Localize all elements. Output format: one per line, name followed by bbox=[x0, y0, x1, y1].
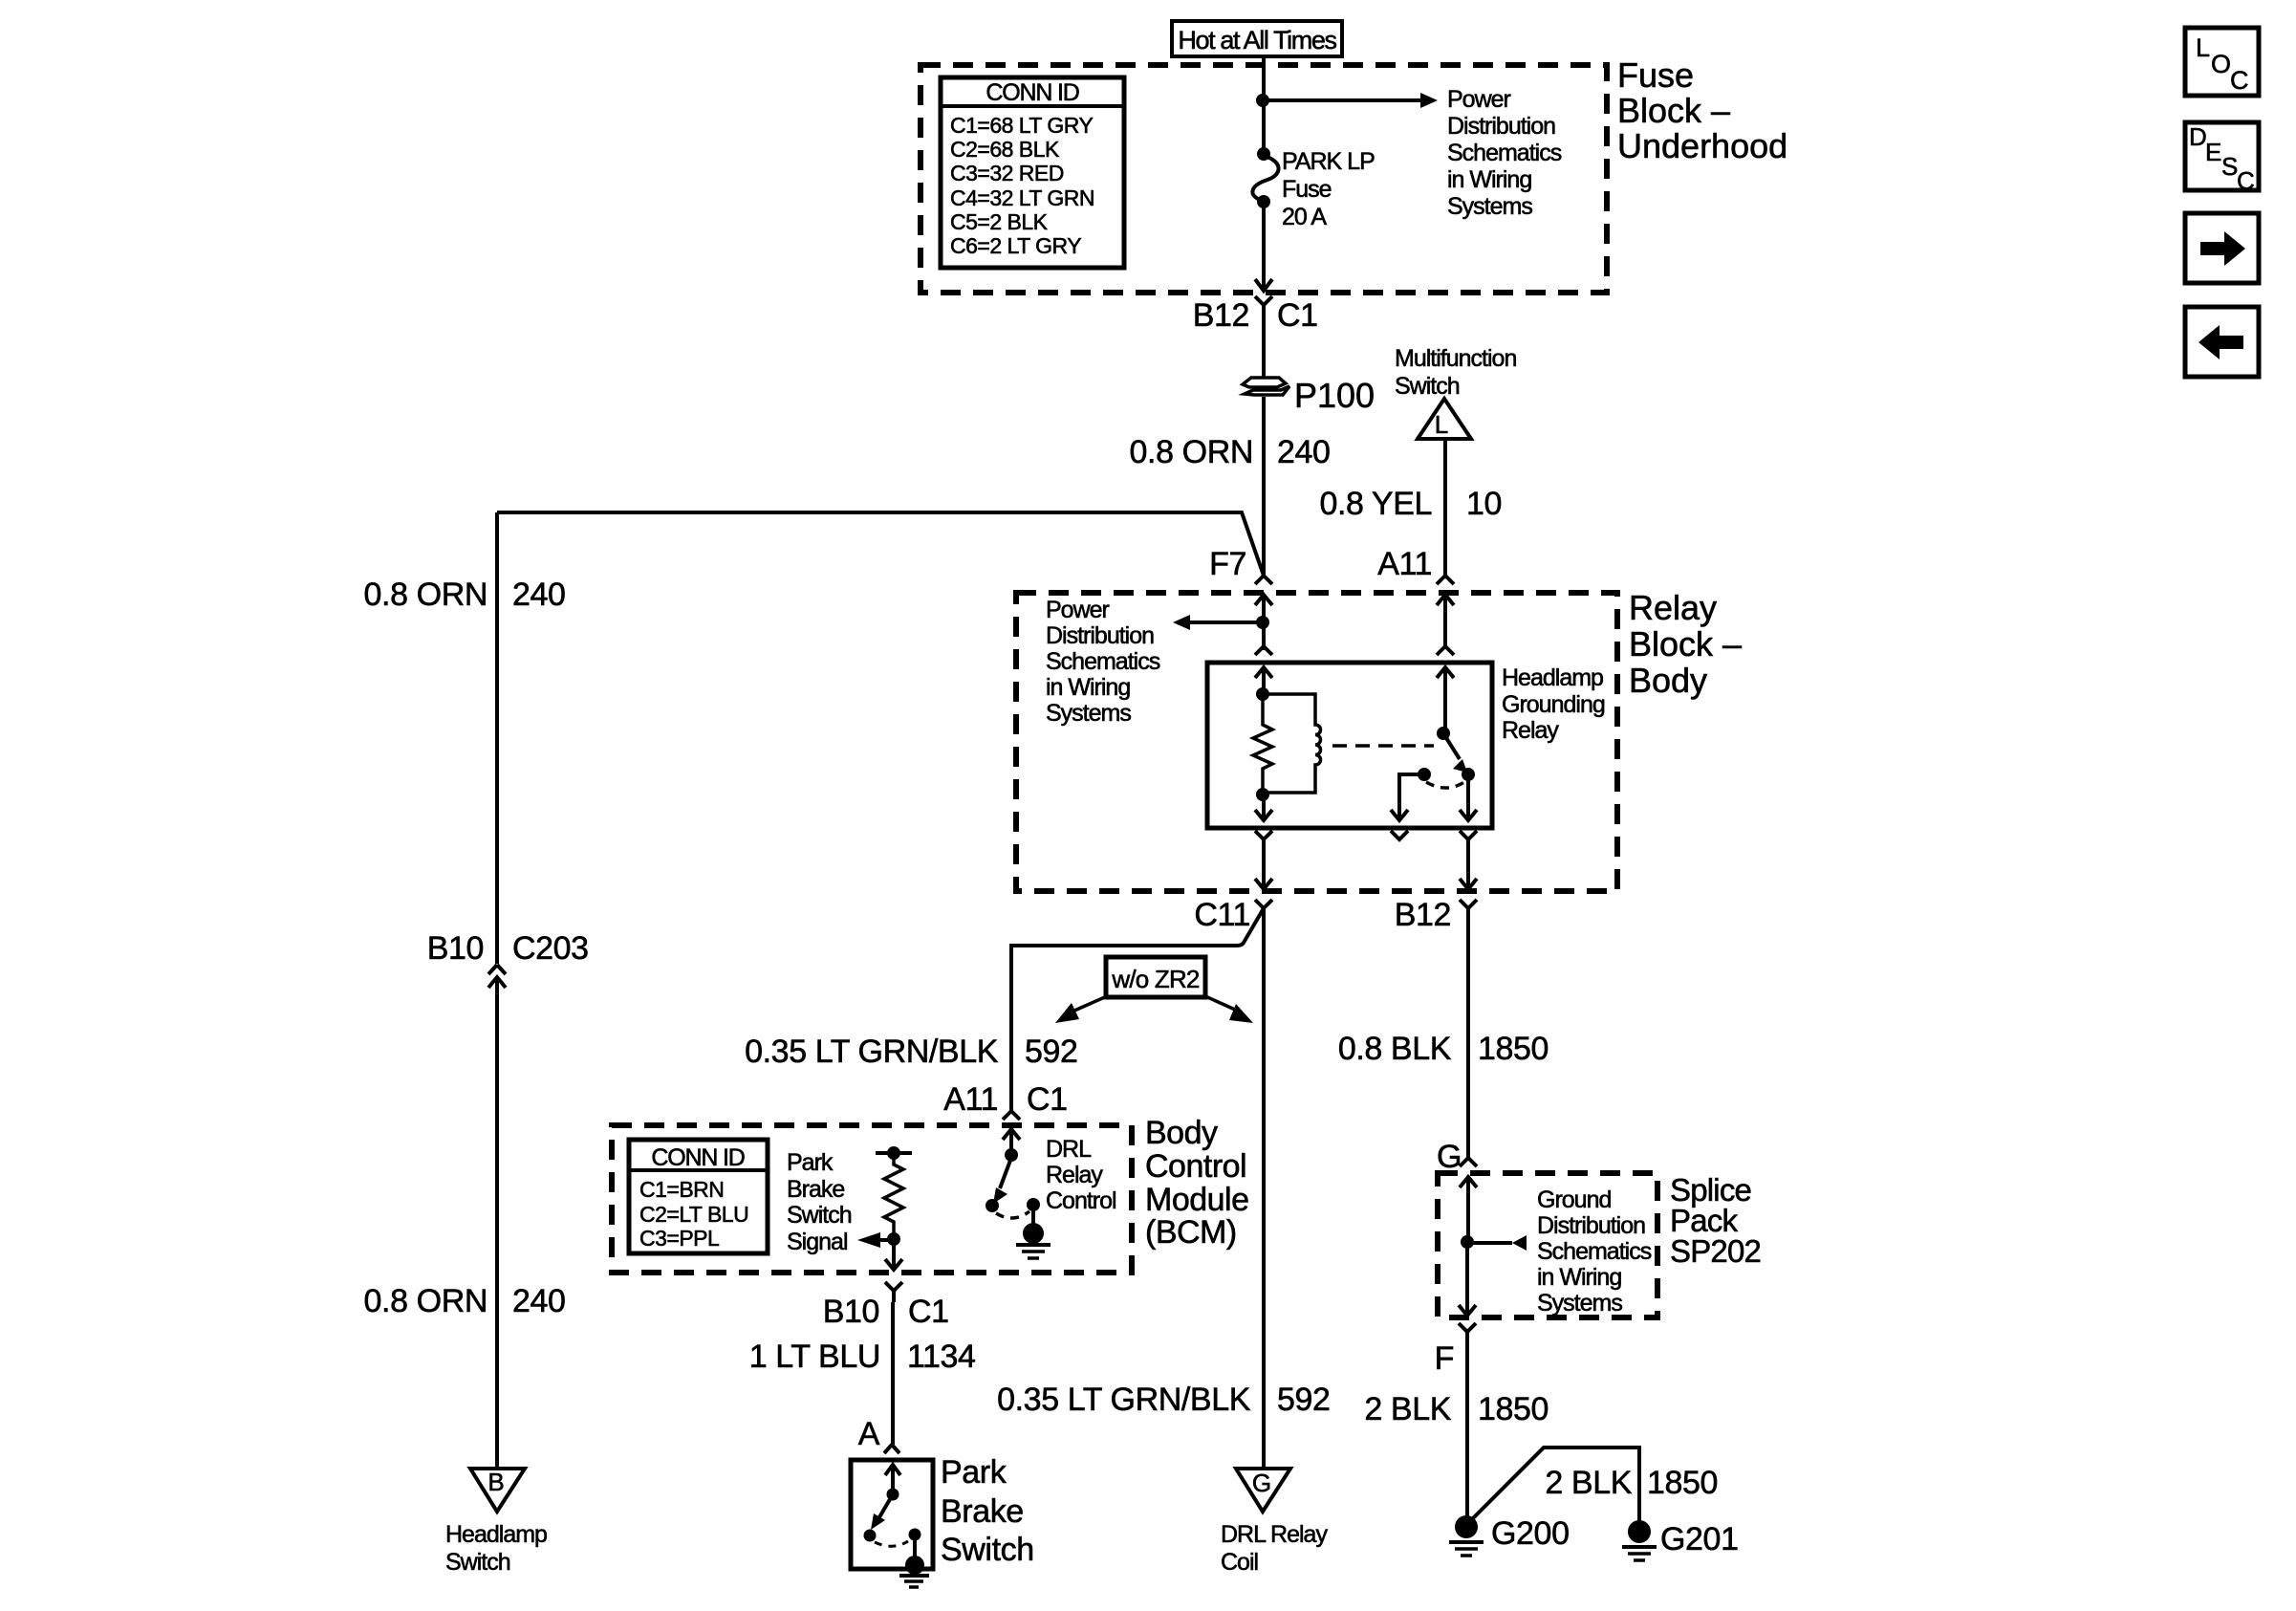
connector arrow leaving fuse block bbox=[1255, 279, 1272, 291]
relay armature dashed link bbox=[1332, 744, 1434, 748]
park brake closed contact bbox=[909, 1529, 921, 1541]
svg-text:DRL: DRL bbox=[1046, 1136, 1092, 1163]
value label 0.8 ORN 240 (left upper) bbox=[364, 577, 566, 613]
svg-text:C: C bbox=[2237, 166, 2255, 195]
svg-text:G200: G200 bbox=[1491, 1515, 1570, 1552]
svg-text:592: 592 bbox=[1277, 1382, 1331, 1418]
wire park brake signal arrow bbox=[857, 1232, 894, 1248]
value label 0.8 YEL 10 bbox=[1319, 486, 1502, 522]
wire left branch down to headlamp switch bbox=[495, 512, 499, 964]
flag box w/o ZR2 bbox=[1106, 957, 1205, 997]
svg-text:Schematics: Schematics bbox=[1046, 648, 1160, 675]
svg-text:A11: A11 bbox=[1377, 546, 1432, 582]
svg-text:G201: G201 bbox=[1660, 1521, 1739, 1557]
relay headlamp grounding relay box bbox=[1207, 663, 1492, 828]
connector F7 female half inside relay block bbox=[1255, 595, 1272, 646]
svg-text:L: L bbox=[1435, 410, 1448, 439]
svg-text:B12: B12 bbox=[1193, 297, 1249, 334]
label power distribution reference (fuse block) bbox=[1447, 86, 1562, 220]
label DRL Relay Control bbox=[1046, 1136, 1116, 1214]
park brake switch pivot bbox=[864, 1530, 877, 1542]
svg-text:Coil: Coil bbox=[1221, 1549, 1258, 1576]
value label 2 BLK 1850 (branch) bbox=[1545, 1465, 1718, 1501]
label Headlamp Switch bbox=[445, 1521, 547, 1576]
svg-text:Systems: Systems bbox=[1046, 700, 1131, 727]
splice pack dashed box bbox=[1438, 1173, 1657, 1317]
svg-text:0.8 ORN: 0.8 ORN bbox=[1130, 434, 1253, 470]
wire A11 pin to switch common bbox=[1437, 667, 1454, 733]
svg-text:in Wiring: in Wiring bbox=[1046, 674, 1130, 701]
svg-text:DRL Relay: DRL Relay bbox=[1221, 1521, 1328, 1548]
svg-text:0.35 LT GRN/BLK: 0.35 LT GRN/BLK bbox=[997, 1382, 1251, 1418]
svg-text:0.35 LT GRN/BLK: 0.35 LT GRN/BLK bbox=[745, 1034, 999, 1070]
svg-text:Systems: Systems bbox=[1537, 1290, 1622, 1317]
svg-text:P100: P100 bbox=[1294, 376, 1375, 415]
svg-text:Brake: Brake bbox=[787, 1176, 844, 1203]
park brake switch contact arrow bbox=[885, 1465, 900, 1490]
label DRL Relay Coil bbox=[1221, 1521, 1328, 1576]
svg-text:0.8 ORN: 0.8 ORN bbox=[364, 577, 487, 613]
wire B10 to park brake switch bbox=[891, 1302, 895, 1445]
junction at relay block F7 tap bbox=[1256, 616, 1269, 629]
wire contact to ground bbox=[913, 1535, 917, 1558]
value label 0.35 LT GRN/BLK 592 (lower) bbox=[997, 1382, 1330, 1418]
connector A11 male half above relay block bbox=[1437, 576, 1454, 584]
svg-text:1134: 1134 bbox=[907, 1339, 976, 1375]
wire branch to ground G201 bbox=[1471, 1448, 1639, 1522]
svg-text:1 LT BLU: 1 LT BLU bbox=[749, 1339, 880, 1375]
value label PARK LP Fuse 20 A bbox=[1282, 148, 1375, 230]
label Park Brake Switch Signal bbox=[787, 1149, 852, 1255]
connector G male half above splice pack bbox=[1460, 1158, 1477, 1166]
svg-text:D: D bbox=[2189, 122, 2207, 151]
svg-text:Power: Power bbox=[1046, 597, 1110, 623]
svg-text:Schematics: Schematics bbox=[1447, 140, 1562, 166]
connector triangle G DRL relay coil bbox=[1236, 1469, 1290, 1512]
svg-text:Block –: Block – bbox=[1629, 624, 1742, 664]
contact common lower bbox=[1462, 768, 1475, 781]
svg-text:B10: B10 bbox=[823, 1294, 879, 1330]
svg-text:Brake: Brake bbox=[941, 1493, 1024, 1530]
wire splice to F pin bbox=[1459, 1242, 1476, 1316]
connector table CONN ID (BCM) bbox=[629, 1140, 768, 1253]
park brake dashed contact arc bbox=[875, 1541, 908, 1546]
connector A11 pin top half bbox=[1437, 646, 1454, 655]
svg-text:Ground: Ground bbox=[1537, 1186, 1611, 1213]
svg-text:B: B bbox=[487, 1468, 504, 1496]
junction coil top bbox=[1256, 687, 1269, 701]
connector coil pin top half bbox=[1255, 646, 1272, 655]
park brake switch top contact bbox=[887, 1489, 899, 1501]
wire F to ground G200 bbox=[1465, 1344, 1469, 1520]
svg-text:0.8 YEL: 0.8 YEL bbox=[1319, 486, 1432, 522]
junction at power distribution tap bbox=[1256, 94, 1269, 107]
relay coil resistor bbox=[1253, 694, 1272, 795]
svg-text:C5=2 BLK: C5=2 BLK bbox=[950, 209, 1049, 234]
svg-text:C3=PPL: C3=PPL bbox=[639, 1226, 720, 1251]
svg-text:C203: C203 bbox=[512, 930, 589, 967]
fuse PARK LP 20A bbox=[1252, 147, 1278, 208]
value label 0.8 ORN 240 (left lower) bbox=[364, 1283, 566, 1319]
connector C1 female half below fuse block bbox=[1255, 296, 1272, 321]
connector A male half above park brake switch bbox=[884, 1445, 899, 1453]
junction coil bottom bbox=[1256, 788, 1269, 801]
svg-text:Relay: Relay bbox=[1046, 1162, 1103, 1188]
svg-text:w/o ZR2: w/o ZR2 bbox=[1111, 965, 1200, 993]
svg-text:Fuse: Fuse bbox=[1282, 176, 1332, 203]
BCM pull-up resistor bbox=[876, 1146, 912, 1239]
svg-text:Headlamp: Headlamp bbox=[445, 1521, 547, 1548]
svg-text:1850: 1850 bbox=[1478, 1031, 1549, 1067]
relay switch blade bbox=[1443, 733, 1467, 773]
connector G female half inside splice pack bbox=[1460, 1177, 1477, 1242]
svg-text:Systems: Systems bbox=[1447, 193, 1532, 220]
nav icon previous arrow bbox=[2185, 307, 2259, 377]
DRL relay control driver bbox=[986, 1148, 1040, 1226]
connector NC pin bottom half bbox=[1391, 831, 1408, 839]
svg-text:PARK LP: PARK LP bbox=[1282, 148, 1375, 175]
wire C11 branch to BCM bbox=[1011, 908, 1264, 1111]
wire F7 tap to relay coil pin bbox=[1262, 622, 1266, 650]
park brake switch box bbox=[851, 1460, 933, 1569]
svg-text:C2=LT BLU: C2=LT BLU bbox=[639, 1202, 748, 1227]
svg-text:10: 10 bbox=[1466, 486, 1502, 522]
relay coil pin arrow inside bbox=[1255, 667, 1272, 694]
svg-text:SP202: SP202 bbox=[1670, 1233, 1761, 1269]
svg-text:240: 240 bbox=[512, 577, 566, 613]
connector C203 female half bbox=[488, 977, 506, 1469]
connector B10 female half below BCM bbox=[885, 1282, 902, 1302]
svg-text:Switch: Switch bbox=[1395, 373, 1460, 400]
svg-text:C1=68 LT GRY: C1=68 LT GRY bbox=[950, 113, 1093, 138]
nav icon LOC bbox=[2185, 28, 2259, 96]
svg-text:S: S bbox=[2221, 152, 2238, 181]
wire multifunction switch to relay block A11 bbox=[1443, 439, 1447, 576]
svg-text:in Wiring: in Wiring bbox=[1537, 1264, 1621, 1291]
svg-text:Underhood: Underhood bbox=[1617, 126, 1787, 165]
nav icon next arrow bbox=[2185, 213, 2259, 283]
svg-text:C3=32 RED: C3=32 RED bbox=[950, 161, 1064, 185]
ground park brake switch bbox=[899, 1556, 929, 1587]
ground BCM internal bbox=[1016, 1223, 1051, 1258]
svg-text:Control: Control bbox=[1145, 1148, 1246, 1185]
svg-text:Hot at All Times: Hot at All Times bbox=[1178, 26, 1336, 54]
svg-text:Power: Power bbox=[1447, 86, 1511, 113]
svg-text:L: L bbox=[2196, 33, 2210, 62]
svg-text:Control: Control bbox=[1046, 1187, 1116, 1214]
relay block body dashed box bbox=[1016, 593, 1617, 891]
wire power distribution reference arrow bbox=[1263, 93, 1438, 108]
svg-text:Park: Park bbox=[941, 1454, 1007, 1491]
junction switch common bbox=[1437, 727, 1450, 740]
label Body Control Module BCM bbox=[1145, 1115, 1249, 1251]
label power distribution reference (relay block) bbox=[1046, 597, 1160, 727]
svg-text:C1: C1 bbox=[1277, 297, 1318, 334]
svg-text:Switch: Switch bbox=[941, 1532, 1034, 1568]
svg-text:Distribution: Distribution bbox=[1447, 113, 1555, 140]
svg-text:Signal: Signal bbox=[787, 1229, 848, 1255]
svg-text:1850: 1850 bbox=[1647, 1465, 1718, 1501]
ground G201 bbox=[1622, 1520, 1657, 1560]
label Headlamp Grounding Relay bbox=[1502, 664, 1605, 744]
wire B12 to P100 bbox=[1262, 321, 1266, 377]
svg-text:20 A: 20 A bbox=[1282, 204, 1327, 230]
svg-text:Module: Module bbox=[1145, 1182, 1249, 1218]
connector triangle L multifunction switch bbox=[1418, 399, 1471, 439]
connector A11 female half inside relay block bbox=[1437, 595, 1454, 646]
junction splice SP202 bbox=[1461, 1235, 1474, 1249]
label Relay Block Body bbox=[1629, 588, 1742, 700]
value label 0.8 BLK 1850 bbox=[1338, 1031, 1549, 1067]
svg-text:Schematics: Schematics bbox=[1537, 1238, 1652, 1265]
connector A11 male half above BCM bbox=[1003, 1111, 1020, 1120]
connector table CONN ID (fuse block) bbox=[941, 77, 1124, 268]
svg-text:G: G bbox=[1252, 1469, 1271, 1497]
svg-text:Body: Body bbox=[1629, 661, 1707, 700]
wire common contact to pin arrow bbox=[1460, 774, 1477, 820]
svg-text:in Wiring: in Wiring bbox=[1447, 166, 1531, 193]
connector C203 male half bbox=[488, 965, 506, 974]
dashed contact arc bbox=[1426, 782, 1464, 788]
svg-text:B12: B12 bbox=[1395, 897, 1451, 933]
svg-text:Distribution: Distribution bbox=[1537, 1212, 1645, 1239]
connector common pin bottom half bbox=[1460, 831, 1477, 839]
svg-text:C1: C1 bbox=[1027, 1081, 1068, 1118]
svg-text:CONN ID: CONN ID bbox=[651, 1144, 744, 1171]
svg-text:Relay: Relay bbox=[1502, 717, 1559, 744]
fuse block underhood dashed box bbox=[921, 65, 1607, 293]
label Multifunction Switch bbox=[1395, 345, 1516, 400]
svg-text:592: 592 bbox=[1025, 1034, 1078, 1070]
value label 2 BLK 1850 bbox=[1364, 1391, 1549, 1427]
flag arrow left bbox=[1055, 996, 1107, 1023]
grommet P100 bbox=[1243, 378, 1289, 395]
svg-text:Grounding: Grounding bbox=[1502, 691, 1605, 718]
ground G200 bbox=[1449, 1515, 1484, 1556]
label Fuse Block Underhood bbox=[1617, 55, 1787, 165]
svg-text:2 BLK: 2 BLK bbox=[1545, 1465, 1632, 1501]
svg-text:Park: Park bbox=[787, 1149, 834, 1176]
park brake switch blade bbox=[871, 1494, 893, 1530]
label Splice Pack SP202 bbox=[1670, 1172, 1761, 1269]
svg-text:(BCM): (BCM) bbox=[1145, 1214, 1237, 1251]
wire common pin to B12 bbox=[1460, 839, 1477, 889]
value label 0.35 LT GRN/BLK 592 (upper) bbox=[745, 1034, 1077, 1070]
wire power distribution reference arrow (relay block) bbox=[1173, 615, 1263, 630]
contact normally closed bbox=[1418, 768, 1431, 781]
svg-text:C4=32 LT GRN: C4=32 LT GRN bbox=[950, 185, 1094, 210]
connector triangle B headlamp switch bbox=[470, 1468, 525, 1512]
wire signal to B10 pin bbox=[885, 1239, 902, 1270]
nav icon DESC bbox=[2185, 122, 2259, 195]
wire coil bottom to pin arrow bbox=[1255, 795, 1272, 820]
svg-text:A: A bbox=[858, 1416, 880, 1452]
value label 1 LT BLU 1134 bbox=[749, 1339, 976, 1375]
svg-text:C1: C1 bbox=[908, 1294, 949, 1330]
value label 0.8 ORN 240 (center) bbox=[1130, 434, 1331, 470]
svg-text:C6=2 LT GRY: C6=2 LT GRY bbox=[950, 233, 1081, 258]
wire fuse output to connector B12 bbox=[1262, 202, 1266, 291]
wire ground distribution reference arrow bbox=[1467, 1235, 1527, 1251]
flag arrow right bbox=[1205, 996, 1253, 1023]
svg-text:Switch: Switch bbox=[445, 1549, 510, 1576]
wire P100 to relay block F7 bbox=[1262, 397, 1266, 576]
svg-text:CONN ID: CONN ID bbox=[986, 79, 1078, 106]
svg-text:0.8 BLK: 0.8 BLK bbox=[1338, 1031, 1452, 1067]
svg-text:1850: 1850 bbox=[1478, 1391, 1549, 1427]
connector F7 male half above relay block bbox=[1255, 576, 1272, 584]
svg-text:Distribution: Distribution bbox=[1046, 622, 1154, 649]
svg-text:E: E bbox=[2205, 138, 2221, 166]
svg-text:B10: B10 bbox=[427, 930, 484, 967]
connector coil pin bottom half bbox=[1255, 831, 1272, 839]
svg-text:Headlamp: Headlamp bbox=[1502, 664, 1603, 691]
connector B12 female half below relay block bbox=[1460, 900, 1477, 920]
wire C11 to DRL relay coil bbox=[1262, 908, 1266, 1469]
svg-text:O: O bbox=[2211, 50, 2231, 78]
wire NC contact to pin arrow bbox=[1391, 774, 1424, 820]
wire coil pin to C11 bbox=[1255, 839, 1272, 889]
svg-text:Relay: Relay bbox=[1629, 588, 1717, 627]
label Park Brake Switch bbox=[941, 1454, 1034, 1568]
svg-text:240: 240 bbox=[512, 1283, 566, 1319]
svg-text:C: C bbox=[2230, 66, 2249, 95]
svg-text:240: 240 bbox=[1277, 434, 1331, 470]
svg-text:F: F bbox=[1435, 1340, 1454, 1377]
connector A11 female half inside BCM bbox=[1003, 1129, 1020, 1155]
svg-text:Switch: Switch bbox=[787, 1202, 852, 1229]
svg-text:Body: Body bbox=[1145, 1115, 1218, 1151]
svg-text:0.8 ORN: 0.8 ORN bbox=[364, 1283, 487, 1319]
junction park brake signal bbox=[887, 1232, 900, 1246]
svg-text:Block –: Block – bbox=[1617, 91, 1730, 130]
svg-text:Fuse: Fuse bbox=[1617, 55, 1694, 95]
svg-text:G: G bbox=[1437, 1139, 1462, 1175]
connector C11 female half below relay block bbox=[1255, 900, 1272, 920]
svg-text:F7: F7 bbox=[1209, 546, 1246, 582]
node Hot at All Times bbox=[1172, 21, 1342, 56]
label ground distribution reference bbox=[1537, 1186, 1652, 1317]
body control module dashed box bbox=[612, 1125, 1132, 1273]
wire hot feed into fuse block bbox=[1262, 56, 1266, 154]
wire B12 to splice pack bbox=[1466, 920, 1470, 1158]
svg-text:C1=BRN: C1=BRN bbox=[639, 1177, 724, 1202]
svg-text:C2=68 BLK: C2=68 BLK bbox=[950, 137, 1060, 162]
relay coil winding bbox=[1263, 694, 1321, 793]
svg-text:C11: C11 bbox=[1194, 897, 1250, 933]
connector F female half below splice pack bbox=[1459, 1323, 1476, 1344]
svg-text:Multifunction: Multifunction bbox=[1395, 345, 1516, 372]
wire branch to headlamp switch (horizontal) bbox=[497, 512, 1264, 576]
svg-text:2 BLK: 2 BLK bbox=[1364, 1391, 1451, 1427]
svg-text:A11: A11 bbox=[943, 1081, 998, 1118]
